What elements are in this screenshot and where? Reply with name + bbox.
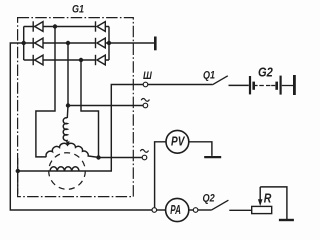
wire: field winding right end up to terminal Sh (79, 85, 143, 172)
junction node on row 1 (53, 24, 57, 28)
battery G2 (250, 76, 293, 95)
wire: PV to ground (189, 142, 212, 156)
terminal circle ~ (lower) (142, 155, 147, 160)
star point (66, 141, 70, 145)
switch Q1 (212, 76, 228, 85)
wire: terminal to switch Q2 (198, 209, 211, 211)
wire: field winding left end to frame (18, 170, 79, 172)
wire: positive output to terminal bar (109, 42, 154, 44)
wire: AC terminal tap (lower) (99, 157, 143, 159)
ground (chassis) for R (279, 219, 294, 221)
junction node on row 3 (79, 58, 83, 62)
field winding LE (50, 167, 79, 171)
switch Q2 (211, 200, 228, 210)
diode VD5 (right column, row 2) (96, 38, 106, 48)
wire: Q1 to battery G2 (229, 84, 249, 86)
wire: left bridge bus (23, 27, 25, 61)
wire: voltmeter branch from bottom junction (155, 142, 166, 208)
wire: bridge row 1 (phase A) (24, 26, 109, 28)
svg-text:G2: G2 (258, 66, 273, 80)
svg-text:G1: G1 (72, 4, 84, 16)
wire: phase B dropper to centre stator coil (66, 43, 69, 118)
label ~ (lower terminal) (140, 150, 148, 153)
rotor (dashed circle) (49, 153, 86, 190)
svg-text:PA: PA (170, 203, 181, 217)
terminal circle (bottom junction) (152, 208, 157, 213)
wire: negative bus out of bridge, down left side and along bottom (10, 43, 152, 210)
wire: wiper to ground (260, 187, 287, 219)
diode VD6 (right column, row 3) (96, 55, 106, 65)
terminal circle ~ (middle) (143, 103, 148, 108)
stator winding scalloped arch (46, 143, 98, 157)
junction node on row 2 left bus (22, 41, 26, 45)
voltmeter PV (166, 130, 189, 153)
ammeter PA (166, 198, 189, 221)
rheostat R body (252, 206, 272, 213)
terminal circle (PA output) (193, 208, 198, 213)
wire: phase A dropper to left stator coil (36, 27, 55, 157)
junction node on row 2 right bus (107, 41, 111, 45)
wire: frame connection segment on enclosure edge (17, 158, 19, 194)
svg-text:Q1: Q1 (203, 69, 215, 81)
wire: to ammeter (157, 209, 166, 211)
generator G1 enclosure (dash-dot box) (18, 18, 134, 197)
svg-text:R: R (264, 191, 272, 206)
svg-text:Q2: Q2 (203, 193, 215, 205)
terminal bar (battery end) (293, 75, 296, 95)
ground (chassis) for PV (204, 156, 221, 158)
wire: PA to terminal circle (189, 209, 194, 211)
diode VD2 (left column, row 2) (33, 38, 43, 48)
wire: AC terminal tap (middle) (68, 105, 143, 107)
terminal circle Sh (143, 82, 148, 87)
wire: Sh terminal to switch Q1 (148, 84, 213, 86)
label ~ (middle terminal) (141, 99, 149, 102)
wire: bridge row 3 (phase C) (24, 59, 109, 61)
svg-text:Ш: Ш (143, 70, 152, 82)
junction node on row 2 (66, 41, 70, 45)
wire: phase C dropper to right star junction (81, 60, 99, 158)
wire: bridge row 2 (phase B) (24, 42, 109, 44)
stator coil (centre phase loops) (63, 118, 67, 141)
wire: Q2 to rheostat R (229, 209, 251, 211)
diode VD4 (right column, row 1) (96, 21, 106, 31)
junction node phase C / AC terminal (lower) (96, 155, 100, 159)
rheostat wiper arrow (259, 187, 261, 200)
terminal bar (+ output) (154, 37, 157, 51)
diode VD1 (left column, row 1) (33, 21, 43, 31)
junction node on enclosure (frame connection) (16, 169, 20, 173)
diode VD3 (left column, row 3) (33, 55, 43, 65)
junction node phase B to AC terminal (66, 103, 70, 107)
wire: right bridge bus (108, 27, 110, 61)
svg-text:PV: PV (171, 135, 186, 149)
